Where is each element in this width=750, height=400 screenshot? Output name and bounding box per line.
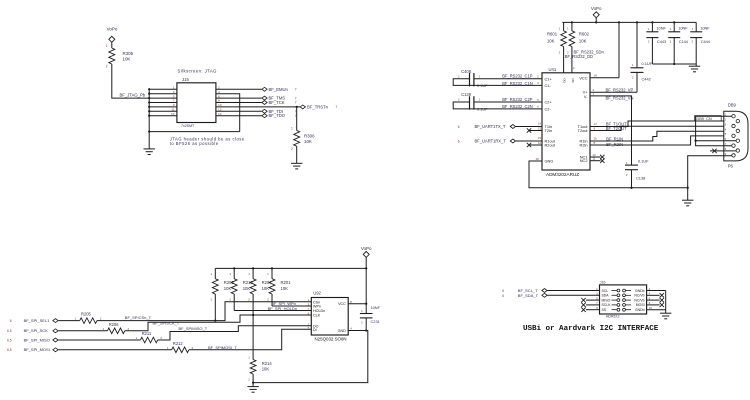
svg-text:C1+: C1+: [545, 76, 553, 81]
svg-text:BF_TCK: BF_TCK: [269, 100, 285, 105]
svg-text:14: 14: [538, 122, 542, 126]
svg-text:10K: 10K: [243, 286, 251, 291]
svg-text:7x2SMT: 7x2SMT: [181, 124, 195, 128]
svg-text:WPn: WPn: [313, 305, 321, 309]
svg-text:HOLDn: HOLDn: [313, 309, 325, 313]
svg-text:6: 6: [502, 294, 504, 298]
wire VoPo stem: [595, 18, 597, 23]
wire pin10 to BF_TRSTn: [216, 106, 300, 108]
wire CLK to R214 pull-down: [252, 315, 254, 360]
svg-text:to BF526 as possible: to BF526 as possible: [170, 141, 219, 146]
wire TRSTn to R306: [296, 107, 298, 131]
wire VCC riser: [618, 22, 620, 77]
net label box DB9_CN: [695, 116, 722, 121]
svg-text:BF_SDA_T: BF_SDA_T: [518, 293, 539, 298]
svg-text:C443: C443: [657, 39, 666, 44]
svg-text:GNDb: GNDb: [635, 289, 645, 293]
wire RX to R1out: [516, 140, 542, 142]
svg-text:0.1UF: 0.1UF: [642, 61, 653, 66]
wire HOLDn: [234, 310, 311, 312]
svg-text:R214: R214: [262, 361, 273, 366]
pin R2out no-connect: [529, 144, 542, 146]
wire GND stub U92: [253, 331, 368, 383]
svg-text:9: 9: [173, 103, 175, 107]
svg-text:C2+: C2+: [545, 100, 553, 105]
svg-text:CSn: CSn: [313, 300, 320, 304]
wire T1OUT: [590, 121, 736, 127]
svg-text:10K: 10K: [123, 56, 131, 61]
svg-text:0.1UF: 0.1UF: [638, 159, 649, 164]
wire JTAG left-pin bus: [148, 89, 150, 131]
wire T2OUT: [590, 126, 732, 130]
svg-text:BF_RS232_VP: BF_RS232_VP: [606, 87, 634, 92]
svg-text:NC/Vb: NC/Vb: [634, 298, 644, 302]
svg-text:R201: R201: [281, 280, 292, 285]
wire CSn staircase to U92: [97, 302, 311, 321]
svg-text:BF_EMUn: BF_EMUn: [269, 87, 289, 92]
svg-text:C444: C444: [701, 39, 711, 44]
capacitor C231 10NF (U92 bypass): [365, 304, 367, 314]
svg-text:CLK: CLK: [313, 314, 321, 318]
svg-text:ADM3202ARUZ: ADM3202ARUZ: [546, 172, 579, 177]
wire VCC to rail: [590, 77, 619, 79]
capacitor C442 0.1UF (V+): [636, 22, 638, 67]
svg-text:BF_SPI_MISO: BF_SPI_MISO: [24, 337, 50, 342]
svg-text:BF_RS232_DD: BF_RS232_DD: [565, 54, 593, 59]
wire R305 to JTAG_Pb net: [112, 64, 149, 98]
wire DB9 pin9 to ground: [688, 156, 732, 188]
svg-text:2: 2: [291, 147, 293, 151]
wire VoPo to VCC: [365, 257, 367, 303]
svg-text:SDA: SDA: [602, 294, 610, 298]
ground (RS-232 / DB9): [687, 188, 689, 200]
svg-text:7: 7: [336, 105, 338, 109]
svg-text:N25Q032 SO8N: N25Q032 SO8N: [315, 336, 347, 341]
wire bypass cap ground rail: [652, 63, 696, 65]
wire SCL to J16: [547, 290, 599, 292]
wire SDA to J16: [547, 294, 599, 296]
svg-text:10K: 10K: [262, 367, 270, 372]
wire JTAG left pin stubs: [149, 88, 177, 90]
svg-text:11: 11: [593, 157, 596, 161]
pin stubs J16 right: [647, 290, 666, 292]
svg-text:VoPo: VoPo: [107, 27, 118, 32]
wire TX to T1in: [516, 126, 542, 128]
svg-text:GND: GND: [338, 329, 346, 333]
svg-text:2: 2: [106, 65, 108, 69]
wire R204 to CLK net and pull-down: [252, 298, 254, 315]
wire MOSI to R212: [58, 349, 171, 351]
wire MOSI staircase to DI: [189, 329, 311, 350]
wire MISO to R211: [58, 339, 140, 341]
svg-text:USBi or Aardvark I2C INTERFACE: USBi or Aardvark I2C INTERFACE: [523, 325, 659, 333]
svg-text:J16: J16: [600, 281, 606, 285]
node BF_TMS: [262, 96, 267, 100]
ground (J16): [660, 312, 671, 314]
svg-text:6,5: 6,5: [7, 338, 12, 342]
wire MISO staircase to DO: [158, 326, 312, 340]
svg-text:NC/Vb: NC/Vb: [634, 294, 644, 298]
svg-text:BF_TRSTn: BF_TRSTn: [307, 104, 329, 109]
node BF_TCK: [262, 101, 267, 105]
wire C138 to ground rail: [631, 170, 633, 188]
svg-text:11: 11: [171, 108, 175, 112]
svg-text:C139: C139: [461, 92, 472, 97]
svg-text:BF_SPICSn_T: BF_SPICSn_T: [125, 315, 152, 320]
svg-text:10K: 10K: [262, 286, 270, 291]
svg-text:C138: C138: [636, 175, 645, 180]
svg-text:6,5: 6,5: [7, 329, 12, 333]
svg-text:C408: C408: [461, 69, 472, 74]
svg-text:GND: GND: [545, 159, 554, 164]
svg-text:12: 12: [571, 66, 575, 70]
svg-text:T2out: T2out: [578, 128, 589, 133]
svg-text:15: 15: [538, 136, 542, 140]
svg-text:BF_R2IN: BF_R2IN: [606, 142, 623, 147]
pin circles DB9: [732, 115, 735, 118]
svg-text:GNDb: GNDb: [635, 308, 645, 312]
svg-text:BF_SPI_SEL1: BF_SPI_SEL1: [24, 318, 51, 323]
svg-text:BF_JTAG_Pb: BF_JTAG_Pb: [120, 93, 146, 98]
svg-text:1: 1: [291, 127, 293, 131]
svg-text:R203: R203: [224, 280, 235, 285]
wire R214 to ground: [252, 374, 254, 383]
svg-text:10K: 10K: [304, 139, 312, 144]
svg-text:C442: C442: [642, 76, 651, 81]
capacitor C443 10NF: [651, 22, 653, 31]
svg-text:6: 6: [458, 125, 460, 129]
svg-text:P6: P6: [728, 164, 734, 169]
svg-text:R212: R212: [173, 341, 184, 346]
svg-text:R206: R206: [109, 322, 120, 327]
wire pin12 to BF_TDI: [216, 110, 262, 112]
svg-text:BF_RS232_C2N: BF_RS232_C2N: [502, 104, 533, 109]
wire SEL1 to R205: [58, 320, 79, 322]
wire J16 ground tie: [665, 291, 667, 314]
wire SCK staircase to CLK: [125, 315, 311, 331]
ground (bypass caps): [695, 64, 697, 66]
wire pin4 wrap to ground rail: [216, 94, 240, 132]
svg-text:7: 7: [173, 99, 175, 103]
wire pin14 to BF_TDO: [216, 115, 262, 117]
svg-text:SD: SD: [571, 78, 575, 83]
svg-text:BF_TDO: BF_TDO: [269, 113, 286, 118]
svg-text:10NF: 10NF: [656, 25, 666, 30]
svg-text:R602: R602: [579, 31, 590, 36]
wire DB9 pin8 no-connect: [710, 150, 736, 152]
svg-text:R2in: R2in: [580, 143, 588, 148]
wire bus to ground: [148, 132, 150, 149]
svg-text:12: 12: [538, 141, 542, 145]
svg-text:VoPo: VoPo: [591, 6, 602, 11]
svg-text:R305: R305: [123, 51, 134, 56]
svg-text:BF_UART1TX_T: BF_UART1TX_T: [475, 124, 506, 129]
svg-text:10K: 10K: [547, 38, 555, 43]
svg-text:MISO: MISO: [602, 298, 611, 302]
svg-text:T2in: T2in: [545, 128, 553, 133]
svg-text:R306: R306: [304, 133, 315, 138]
capacitor C144 10NF: [673, 22, 675, 31]
wire pin2 to BF_EMUn: [216, 88, 262, 90]
svg-text:19: 19: [594, 74, 598, 78]
svg-text:J15: J15: [182, 77, 189, 82]
resistor R306 10K (TRSTn pull-down): [294, 131, 300, 147]
junction TRSTn / R306: [296, 106, 298, 108]
svg-text:NC2: NC2: [580, 158, 588, 163]
svg-text:6: 6: [458, 140, 460, 144]
resistor R201 10K (SPI pull-up): [271, 267, 273, 269]
wire C139 loop to C2-: [453, 102, 542, 109]
svg-text:DB9: DB9: [728, 102, 737, 107]
wire C231 to GND stub: [365, 318, 367, 331]
svg-text:VCC: VCC: [579, 75, 587, 80]
svg-text:7: 7: [295, 96, 297, 100]
svg-text:C1-: C1-: [545, 83, 552, 88]
svg-text:17: 17: [594, 122, 598, 126]
svg-text:C231: C231: [371, 319, 380, 324]
svg-text:BF_SPI_SCK: BF_SPI_SCK: [24, 328, 49, 333]
svg-text:VCC: VCC: [338, 302, 346, 306]
svg-text:VoPo: VoPo: [361, 246, 372, 251]
svg-text:SS: SS: [602, 308, 607, 312]
wire V- to C138: [590, 96, 632, 165]
svg-text:BF_RS232_C1P: BF_RS232_C1P: [502, 74, 533, 79]
svg-text:Silkscreen: JTAG: Silkscreen: JTAG: [178, 68, 217, 73]
svg-text:7: 7: [295, 88, 297, 92]
svg-text:DD: DD: [563, 78, 567, 83]
wire SPI pull-up rail: [215, 267, 366, 269]
svg-text:HDR5X2: HDR5X2: [606, 315, 620, 319]
svg-text:R210: R210: [243, 280, 254, 285]
wire WPn: [272, 305, 311, 307]
resistor R204 10K (SPI pull-up): [252, 267, 254, 269]
svg-text:BF_SPI_MOSI: BF_SPI_MOSI: [24, 347, 50, 352]
svg-text:10NF: 10NF: [700, 25, 710, 30]
wire R306 to ground: [296, 146, 298, 163]
resistor R210 10K (SPI pull-up): [233, 267, 235, 269]
svg-text:R211: R211: [142, 331, 152, 336]
svg-text:10K: 10K: [281, 286, 289, 291]
svg-text:SCL: SCL: [602, 289, 609, 293]
ground (SPI): [252, 383, 254, 387]
wire VCC stub U92: [348, 303, 366, 305]
svg-text:R204: R204: [262, 280, 273, 285]
svg-text:10K: 10K: [224, 286, 232, 291]
svg-text:1: 1: [106, 44, 108, 48]
wire JTAG ground rail: [149, 131, 240, 133]
node BF_EMUn: [262, 87, 267, 91]
wire SCK to R206: [58, 330, 107, 332]
wire pin6 to BF_TMS: [216, 97, 262, 99]
pin T2in no-connect: [529, 130, 542, 132]
svg-text:10NF: 10NF: [371, 305, 381, 310]
svg-text:C144: C144: [679, 39, 689, 44]
svg-text:BF_SPISCK_T: BF_SPISCK_T: [153, 321, 180, 326]
pin stubs J16 left no-connects: [586, 299, 600, 301]
wire R201 to WPn: [271, 298, 273, 306]
wire R2IN: [590, 136, 732, 145]
svg-text:3: 3: [173, 90, 175, 94]
svg-text:C2-: C2-: [545, 106, 552, 111]
svg-text:U92: U92: [313, 291, 321, 296]
wire pin8 to BF_TCK: [216, 102, 262, 104]
wire VoPo to R305: [111, 42, 113, 48]
svg-text:DB9_CN: DB9_CN: [696, 116, 711, 121]
svg-text:R205: R205: [81, 312, 92, 317]
svg-text:7: 7: [295, 101, 297, 105]
svg-text:16: 16: [594, 136, 598, 140]
ground (JTAG header): [144, 148, 155, 150]
svg-text:6: 6: [502, 289, 504, 293]
wire R1IN: [590, 131, 736, 141]
svg-text:BF_SPIMISO_T: BF_SPIMISO_T: [179, 326, 208, 331]
wire V+ to C442: [590, 91, 637, 93]
svg-text:BF_UART1RX_T: BF_UART1RX_T: [475, 138, 507, 143]
svg-text:BF_RS232_VN: BF_RS232_VN: [606, 95, 634, 100]
svg-text:DI: DI: [313, 328, 317, 332]
svg-text:10K: 10K: [579, 38, 587, 43]
svg-text:BF_RS232_C1N: BF_RS232_C1N: [502, 81, 533, 86]
wire C408 loop to C1-: [453, 79, 542, 86]
wire RS-232 VCC top rail: [562, 21, 696, 23]
svg-text:6: 6: [10, 319, 12, 323]
svg-text:13: 13: [171, 112, 175, 116]
svg-text:5: 5: [173, 94, 175, 98]
svg-text:6,5: 6,5: [7, 348, 12, 352]
svg-text:10NF: 10NF: [678, 25, 688, 30]
svg-text:SCLK: SCLK: [602, 303, 612, 307]
wire DB9 pin1-pin6-pin7 tie: [696, 116, 732, 146]
node BF_TDO: [262, 114, 267, 118]
resistor R203 10K (SPI pull-up): [214, 268, 216, 278]
svg-text:MOSI: MOSI: [636, 303, 645, 307]
ground (TRSTn pull-down): [291, 162, 302, 164]
svg-text:R601: R601: [547, 31, 558, 36]
wire C442 to V+ row: [636, 72, 638, 92]
svg-text:BF_RS232_C2P: BF_RS232_C2P: [502, 97, 533, 102]
svg-text:18: 18: [535, 157, 539, 161]
node BF_TDI: [262, 109, 267, 113]
svg-text:13: 13: [538, 126, 542, 130]
wire R210 to HOLDn: [233, 298, 235, 311]
wire R203 to CSn net: [214, 298, 216, 321]
svg-text:R2out: R2out: [545, 143, 556, 148]
node BF_TRSTn: [300, 105, 305, 109]
svg-text:1: 1: [173, 86, 175, 90]
svg-text:U41: U41: [549, 67, 557, 72]
